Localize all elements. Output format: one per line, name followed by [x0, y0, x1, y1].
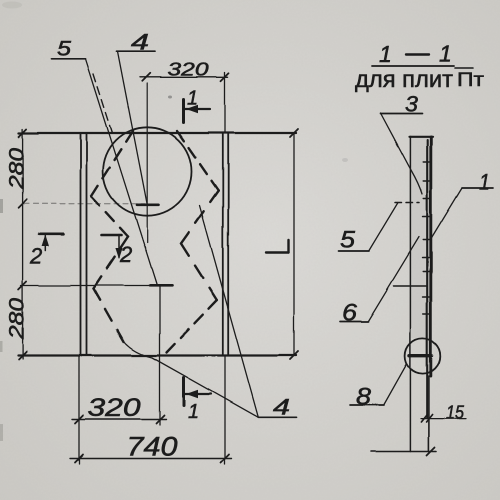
svg-text:4: 4 — [273, 395, 290, 420]
svg-text:5: 5 — [340, 227, 356, 254]
svg-text:6: 6 — [342, 300, 358, 327]
faint scan shading inside section plate — [411, 138, 430, 338]
svg-text:1: 1 — [187, 88, 198, 110]
svg-text:3: 3 — [405, 92, 419, 117]
section marker 2 inner — [102, 234, 122, 237]
L label strokes — [266, 251, 289, 253]
left dimension line — [22, 129, 24, 359]
15 dimension — [421, 418, 466, 420]
dashed bent bar left chain — [91, 131, 133, 197]
leader label 5 right — [339, 250, 370, 252]
leader label 3 — [381, 113, 423, 115]
transverse tick y=286 — [394, 285, 427, 287]
plate top edge — [19, 132, 296, 134]
section plate right edge — [429, 137, 432, 376]
leader of label 4 top to circle center — [118, 51, 148, 204]
inner bar item 3 — [426, 140, 428, 418]
svg-text:4: 4 — [131, 30, 149, 55]
section marker 1 top — [182, 99, 185, 123]
scan smudges — [0, 199, 3, 213]
horizontal line y=285.5 — [21, 285, 156, 287]
extension line x=79 — [78, 356, 80, 464]
svg-text:1: 1 — [439, 41, 452, 67]
svg-text:1: 1 — [479, 170, 490, 195]
ticks on left dim line — [19, 129, 27, 137]
svg-text:320: 320 — [168, 60, 209, 80]
svg-text:15: 15 — [446, 403, 465, 423]
left rib double line — [80, 133, 82, 356]
svg-text:280: 280 — [6, 148, 29, 191]
label 4 bottom underline — [258, 416, 297, 418]
svg-text:280: 280 — [6, 298, 29, 341]
extension line x=159.5 down to 320 dim — [159, 286, 161, 425]
vertical centerline — [146, 83, 148, 242]
detail circle 8 — [405, 338, 440, 373]
svg-text:740: 740 — [127, 432, 178, 462]
overline of Pt — [455, 67, 473, 69]
svg-text:320: 320 — [88, 394, 141, 422]
section marker 1 bottom — [182, 378, 185, 406]
section plate left edge — [409, 137, 411, 452]
extension for top 320 right — [224, 72, 226, 133]
svg-text:5: 5 — [57, 38, 71, 61]
svg-text:Пт: Пт — [457, 70, 484, 91]
bottom 320 dimension — [72, 419, 166, 421]
label 4 top — [117, 50, 155, 52]
center mark — [137, 204, 159, 207]
label 4 bottom: curved leader from left chain — [123, 341, 258, 418]
title underline — [372, 65, 454, 67]
leader label 8 — [350, 404, 384, 406]
hidden loop dashed line — [395, 202, 419, 204]
leader of label 5 — [86, 59, 158, 286]
label 4 bottom: leader to right chain — [200, 206, 259, 418]
svg-text:для плит: для плит — [355, 66, 453, 92]
dashed bent bar right chain — [177, 131, 218, 191]
svg-text:1: 1 — [188, 401, 199, 423]
top 320 dimension line — [140, 76, 228, 78]
bottom 740 dimension — [70, 458, 232, 460]
bottom edge line — [371, 451, 437, 453]
svg-text:8: 8 — [356, 384, 372, 411]
thick end dash of line y=285.5 — [150, 284, 172, 287]
label 5 — [52, 58, 86, 60]
bar cross ticks — [423, 161, 429, 163]
svg-text:2: 2 — [119, 242, 132, 267]
section marker 2 left — [39, 233, 64, 236]
dashed companion of label 5 leader — [94, 74, 113, 133]
faint horizontal centerline y=204 — [24, 203, 145, 205]
extension line x=225 — [224, 356, 226, 464]
svg-text:2: 2 — [29, 244, 42, 269]
right rib double line — [222, 133, 224, 356]
right dimension line L — [293, 133, 295, 356]
circle (loop opening) — [103, 127, 191, 215]
top cap — [410, 136, 433, 138]
dash of 1 - 1 — [406, 53, 429, 55]
leader label 6 — [340, 321, 368, 323]
plate bottom edge — [18, 354, 296, 356]
leader label 1 right — [462, 187, 493, 189]
svg-text:1: 1 — [379, 41, 392, 67]
weld bar in circle — [410, 354, 432, 357]
